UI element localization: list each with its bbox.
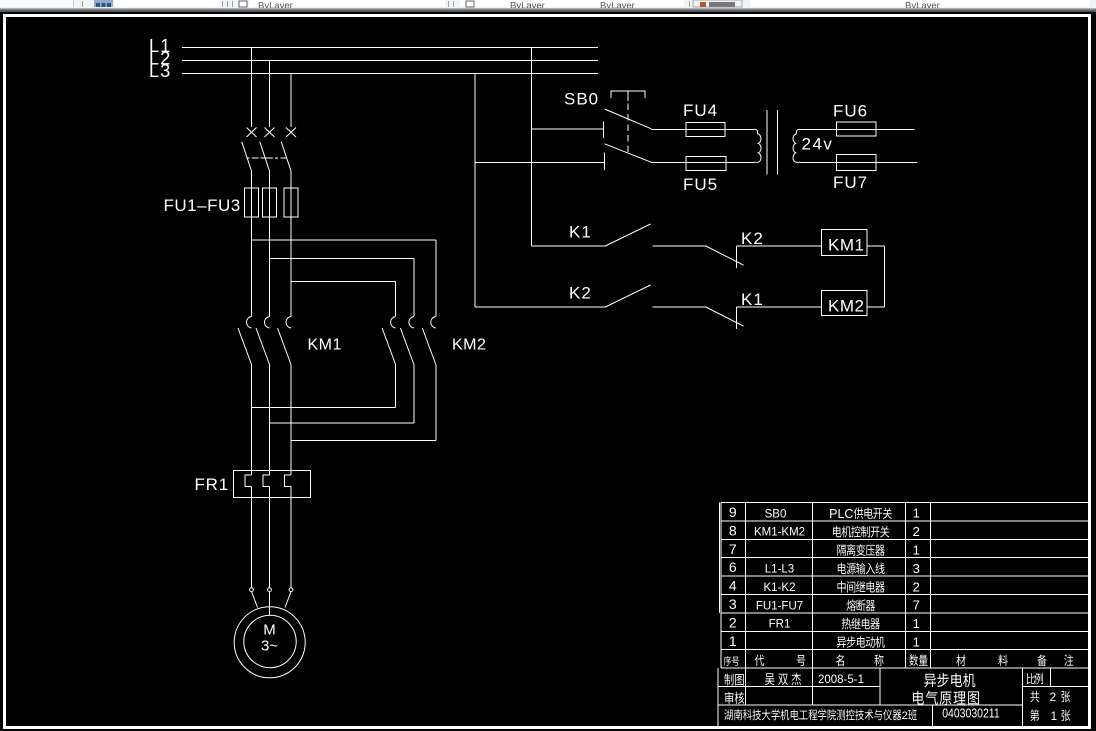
- wire right rail joining coils: [884, 246, 886, 307]
- wire motor lead 2: [269, 592, 271, 616]
- svg-text:SB0: SB0: [765, 508, 787, 520]
- wire L1 drop to QS pole 1: [251, 48, 253, 128]
- svg-text:KM1: KM1: [828, 236, 864, 255]
- wire merge phase1: [252, 407, 396, 409]
- wire from L1 to control (vertical B): [531, 48, 533, 247]
- wire FR1 to motor terminal phase 2: [269, 486, 271, 588]
- wire L2 drop to QS pole 2: [269, 61, 271, 128]
- wire KM2 coil to right rail: [867, 306, 885, 308]
- svg-text:FU1–FU3: FU1–FU3: [164, 196, 241, 215]
- motor M outer circle: [234, 607, 305, 678]
- svg-text:FU5: FU5: [683, 175, 718, 194]
- SB0 top pole terminal bar: [603, 122, 605, 138]
- SB0 actuator bracket: [611, 91, 645, 98]
- wire K2 to K1-NC: [653, 306, 707, 308]
- svg-text:2: 2: [913, 579, 920, 594]
- title block cell 共2张: [1030, 691, 1039, 702]
- fuse FU3 body: [284, 188, 298, 217]
- title block cell 制图: [724, 674, 733, 686]
- svg-text:K1: K1: [569, 223, 592, 242]
- svg-text:FU6: FU6: [833, 102, 868, 121]
- wire KM2 pole3 down: [435, 365, 437, 441]
- wire secondary top to FU6: [800, 128, 915, 130]
- wire phase3 fuse to KM1 contact: [290, 217, 292, 317]
- application toolbar strip (cut off at top of screenshot): [0, 0, 1096, 8]
- wire KM1 coil to right rail: [867, 245, 885, 247]
- wire FR1 to motor terminal phase 1: [251, 486, 253, 588]
- svg-text:3: 3: [913, 561, 920, 576]
- wire motor lead 1: [252, 592, 258, 608]
- K1 NC terminal bar: [736, 307, 738, 329]
- svg-text:KM1: KM1: [308, 337, 342, 354]
- svg-text:K2: K2: [741, 229, 764, 248]
- parts list vertical rules: [720, 503, 722, 669]
- relay contact K2 blade (NO): [605, 285, 650, 307]
- relay contact K1 blade (NC): [706, 307, 744, 326]
- wire merge phase3: [291, 440, 436, 442]
- wire L1 bus: [182, 47, 598, 49]
- title block school line: [724, 709, 732, 720]
- svg-text:1: 1: [913, 616, 920, 631]
- svg-text:K1-K2: K1-K2: [764, 582, 796, 594]
- svg-text:2: 2: [902, 710, 908, 722]
- motor M inner circle: [244, 615, 296, 667]
- QS contact cross pole 3: [286, 128, 296, 138]
- svg-text:PLC: PLC: [829, 507, 853, 521]
- motor terminal circle phase 2: [268, 588, 272, 592]
- main contact KM2 pole3: [431, 317, 436, 329]
- svg-text:7: 7: [913, 598, 920, 613]
- wire L2 bus: [182, 60, 598, 62]
- svg-text:1: 1: [1051, 709, 1058, 723]
- drawing title line2 电气原理图: [913, 691, 924, 705]
- svg-text:FR1: FR1: [195, 475, 230, 494]
- svg-text:KM2: KM2: [828, 297, 864, 316]
- wire through fuse FU1: [251, 188, 253, 217]
- SB0 top pole blade: [605, 109, 652, 129]
- wire from L3 to control (vertical A): [474, 74, 476, 308]
- svg-text:3~: 3~: [261, 638, 278, 655]
- fuse FU1 body: [244, 188, 258, 217]
- wire motor lead 3: [285, 592, 291, 608]
- svg-text:K1: K1: [741, 290, 764, 309]
- svg-text:SB0: SB0: [564, 90, 599, 109]
- title block cell 吴双杰: [765, 673, 775, 685]
- K2 NC terminal bar: [736, 246, 738, 268]
- main contact KM1 pole3: [286, 317, 291, 329]
- FR1 heater element phase 2: [263, 475, 270, 487]
- wire through fuse FU2: [269, 188, 271, 217]
- parts list header row: [724, 656, 731, 666]
- wire blade to fuse FU3: [290, 171, 292, 188]
- wire blade to fuse FU1: [251, 171, 253, 188]
- wire branch phase1 to KM2: [252, 239, 436, 241]
- wire branch phase2 to KM2: [270, 258, 414, 260]
- svg-text:KM1-KM2: KM1-KM2: [754, 527, 805, 539]
- svg-text:2008-5-1: 2008-5-1: [818, 674, 864, 686]
- contactor coil KM2 box: [822, 291, 868, 316]
- wire KM1 pole2 down: [269, 365, 271, 475]
- SB0 bottom pole terminal bar: [604, 153, 606, 171]
- fuse FU2 body: [262, 188, 276, 217]
- wire FR1 to motor terminal phase 3: [290, 486, 292, 588]
- svg-text:L3: L3: [149, 61, 171, 81]
- fuse FU5 body: [686, 156, 726, 170]
- svg-text:FU7: FU7: [833, 173, 868, 192]
- QS switch blade pole 1: [242, 142, 252, 171]
- svg-text:2: 2: [1050, 690, 1057, 704]
- QS contact cross pole 1: [247, 128, 257, 138]
- wire L3 bus: [182, 73, 598, 75]
- svg-text:1: 1: [729, 633, 737, 649]
- wire B to SB0 top pole: [532, 128, 604, 130]
- QS switch blade pole 3: [281, 142, 291, 171]
- wire A to SB0 bottom pole: [475, 161, 605, 163]
- wire phase2 fuse to KM1 contact: [269, 217, 271, 317]
- wire secondary bottom to FU7: [800, 161, 918, 163]
- FR1 heater element phase 1: [245, 475, 252, 487]
- wire blade to fuse FU2: [269, 171, 271, 188]
- drawing title line1 异步电机: [924, 674, 936, 688]
- SB0 actuator stem: [627, 91, 629, 101]
- relay contact K2 blade (NC): [706, 246, 744, 265]
- main contact KM2 pole2: [409, 317, 414, 329]
- title block cell 第1张: [1030, 709, 1039, 721]
- svg-text:1: 1: [913, 506, 920, 521]
- motor terminal circle phase 1: [250, 588, 254, 592]
- main contact KM1 pole1: [246, 317, 251, 329]
- svg-text:2: 2: [913, 524, 920, 539]
- main contact KM1 pole2: [264, 317, 269, 329]
- svg-text:4: 4: [729, 578, 737, 594]
- wire KM1 pole1 down: [251, 365, 253, 475]
- svg-text:L1-L3: L1-L3: [765, 564, 794, 576]
- svg-text:FR1: FR1: [769, 619, 791, 631]
- svg-text:0403030211: 0403030211: [942, 706, 1000, 720]
- svg-text:3: 3: [729, 596, 737, 612]
- svg-text:2: 2: [729, 614, 737, 630]
- wire phase1 fuse to KM1 contact: [251, 217, 253, 317]
- FR1 heater element phase 3: [284, 475, 291, 487]
- wire B to K1 contact: [532, 245, 606, 247]
- fuse FU7 body: [836, 155, 876, 171]
- SB0 bottom pole blade: [605, 144, 652, 163]
- svg-text:FU1-FU7: FU1-FU7: [756, 600, 803, 612]
- fuse FU4 body: [686, 122, 725, 136]
- wire merge phase2: [270, 422, 414, 424]
- transformer primary winding: [754, 129, 761, 162]
- svg-text:9: 9: [729, 504, 737, 520]
- QS contact cross pole 2: [265, 128, 275, 138]
- wire L3 drop to QS pole 3: [290, 74, 292, 128]
- svg-text:6: 6: [729, 559, 737, 575]
- QS switch blade pole 2: [260, 142, 270, 171]
- title block rules: [718, 686, 880, 688]
- contactor coil KM1 box: [822, 229, 868, 255]
- wire through fuse FU3: [290, 188, 292, 217]
- svg-text:7: 7: [729, 541, 737, 557]
- wire SB0 to FU5: [651, 161, 754, 163]
- transformer core: [766, 110, 768, 175]
- parts list horizontal rules: [721, 502, 1089, 504]
- svg-text:1: 1: [913, 543, 920, 558]
- relay contact K1 blade (NO): [605, 224, 650, 246]
- transformer secondary winding: [793, 129, 800, 162]
- title block cell 比例: [1027, 673, 1035, 684]
- wire SB0 to FU4: [651, 128, 754, 130]
- wire branch phase3 to KM2: [291, 281, 396, 283]
- svg-text:K2: K2: [569, 284, 592, 303]
- title block cell 审核: [725, 692, 734, 704]
- wire KM2 pole1 down: [395, 365, 397, 408]
- svg-text:8: 8: [729, 522, 737, 538]
- wire KM1 pole3 down: [290, 365, 292, 475]
- wire A to K2 contact: [475, 306, 605, 308]
- SB0 actuator dashed linkage: [627, 104, 629, 154]
- svg-text:1: 1: [913, 635, 920, 650]
- svg-text:FU4: FU4: [683, 101, 718, 120]
- wire K2-NC to KM1 coil: [737, 245, 822, 247]
- main contact KM2 pole1: [391, 317, 396, 329]
- svg-text:M: M: [263, 622, 276, 639]
- motor terminal circle phase 3: [289, 588, 293, 592]
- fuse FU6 body: [836, 122, 876, 136]
- wire K1 to K2-NC: [653, 245, 707, 247]
- svg-text:24v: 24v: [802, 135, 834, 154]
- QS linkage dash-dot line: [246, 157, 286, 159]
- wire KM2 pole2 down: [413, 365, 415, 424]
- svg-text:KM2: KM2: [452, 337, 486, 354]
- wire K1-NC to KM2 coil: [737, 306, 822, 308]
- thermal relay FR1 box: [233, 471, 310, 498]
